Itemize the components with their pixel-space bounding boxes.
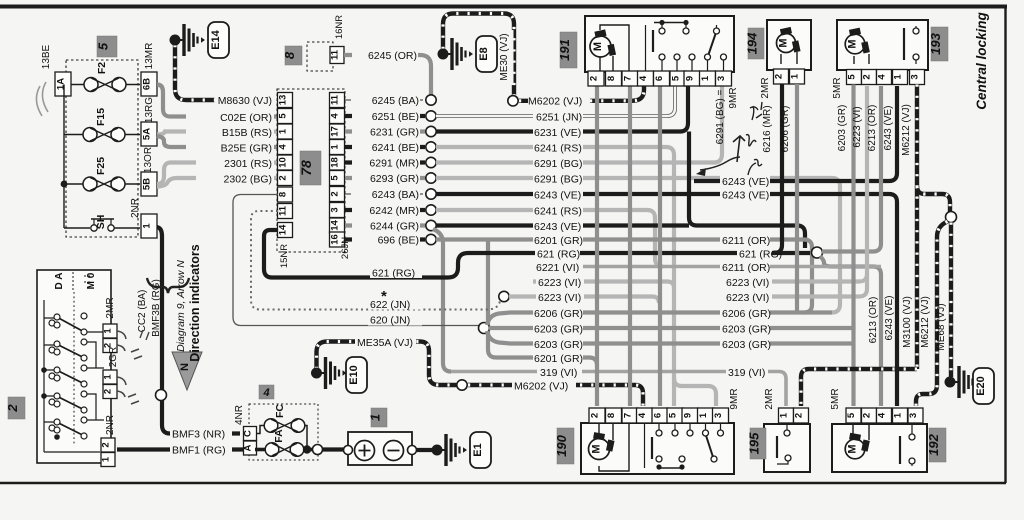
svg-text:319 (VI): 319 (VI) (540, 367, 577, 379)
pin 4 right of connector 78 (330, 109, 345, 124)
fusebox internal bus (63, 85, 65, 229)
svg-text:17: 17 (330, 126, 341, 137)
wire battery to E1 (416, 448, 434, 452)
pin 1 left of connector 78 (278, 124, 293, 139)
svg-text:16NR: 16NR (334, 15, 345, 39)
label 2301 (RS) (196, 156, 274, 169)
svg-text:6223 (VI): 6223 (VI) (538, 277, 581, 289)
pin 3 of 190 (713, 408, 729, 423)
svg-text:2: 2 (774, 74, 785, 79)
wire ME35A (VJ) from E10 (317, 342, 458, 386)
svg-text:5: 5 (278, 113, 289, 119)
component 193 box (837, 20, 928, 70)
wire M8630 (VJ) from E14 (175, 45, 272, 100)
page frame bottom border (0, 482, 1006, 485)
wire M6212 (VJ) from pin 3 of 193 (915, 85, 919, 370)
switch of 192 (899, 436, 901, 464)
pin 11 right of connector 78 (330, 93, 345, 108)
svg-text:11: 11 (330, 94, 341, 105)
pin 6 of 191 (654, 71, 670, 86)
wire stub arcs left of 1A (36, 82, 48, 116)
wire ME68 (VJ) junction to ground E20 (949, 223, 953, 378)
label C02E (OR) (186, 110, 274, 123)
pin 4 of 190 (637, 408, 653, 423)
svg-text:E10: E10 (348, 365, 360, 385)
wire BMF1 (RG) row (117, 447, 243, 451)
svg-text:6: 6 (654, 76, 665, 81)
svg-text:M 0: M 0 (86, 272, 97, 289)
svg-text:C02E (OR): C02E (OR) (220, 112, 272, 124)
svg-text:14: 14 (330, 220, 341, 231)
svg-text:1: 1 (790, 73, 801, 79)
svg-text:1: 1 (893, 74, 904, 80)
wire 2301 (RS) from 5B (157, 163, 278, 185)
svg-text:5: 5 (668, 412, 679, 418)
fuse FA (265, 443, 279, 457)
pin 13 left of connector 78 (278, 93, 293, 108)
pin 2 of 195 (794, 408, 809, 423)
connector node row 2 (426, 111, 436, 121)
svg-text:6251 (JN): 6251 (JN) (536, 112, 582, 124)
wire 6243 (VE) third row (436, 223, 689, 227)
svg-text:6223 (VI): 6223 (VI) (726, 292, 769, 304)
wire 319 (VI) row (451, 372, 786, 407)
svg-text:6211 (OR): 6211 (OR) (722, 235, 770, 247)
pin 5 of 191 (670, 71, 686, 86)
svg-text:6: 6 (653, 413, 664, 418)
svg-text:E20: E20 (975, 376, 987, 396)
svg-text:6203 (GR): 6203 (GR) (722, 324, 771, 336)
svg-text:6211 (OR): 6211 (OR) (722, 262, 770, 274)
wire battery to component 4 (322, 447, 345, 451)
svg-text:3: 3 (716, 76, 727, 81)
ground E8 (438, 49, 449, 60)
pin A of component 4 (244, 441, 257, 455)
svg-text:2GR: 2GR (108, 347, 119, 368)
svg-text:2: 2 (101, 442, 112, 447)
svg-text:2: 2 (330, 191, 341, 196)
svg-text:M8630 (VJ): M8630 (VJ) (218, 95, 272, 107)
fuse F15 (83, 128, 97, 142)
wire M6212 branch to junction (917, 186, 950, 212)
page frame top bar (0, 5, 1007, 9)
label 192 (929, 428, 946, 462)
svg-text:E14: E14 (210, 29, 222, 49)
svg-text:B15B (RS): B15B (RS) (222, 127, 272, 139)
svg-text:13BE: 13BE (41, 44, 52, 69)
svg-text:5: 5 (330, 175, 341, 181)
wire 6242 (MR) from connector 78 (345, 208, 425, 212)
label 195 (750, 428, 766, 459)
svg-text:6213 (OR): 6213 (OR) (867, 105, 878, 152)
svg-text:190: 190 (554, 434, 569, 456)
svg-text:E8: E8 (478, 47, 490, 60)
wire 6231 (VE) row (436, 86, 688, 132)
svg-text:2MR: 2MR (764, 388, 775, 409)
wire 6291 (BG) row to pin 3 of 191 (436, 86, 722, 163)
pin 5 right of connector 78 (330, 171, 345, 186)
svg-text:6221 (VI): 6221 (VI) (536, 262, 579, 274)
svg-text:6201 (GR): 6201 (GR) (534, 235, 583, 247)
svg-text:D A: D A (54, 273, 65, 290)
pin 6 of 190 (652, 408, 668, 423)
svg-text:BMF1 (RG): BMF1 (RG) (172, 445, 226, 457)
svg-text:15NR: 15NR (279, 244, 290, 268)
pin 2 left of connector 78 (278, 171, 293, 186)
connector node 6223 (499, 291, 509, 301)
label 194 (748, 28, 764, 59)
terminal node component 4 (313, 445, 323, 455)
svg-text:78: 78 (298, 160, 314, 176)
svg-text:7: 7 (623, 76, 634, 81)
component 190 box (581, 423, 734, 474)
svg-text:C: C (243, 430, 254, 437)
pin 18 right of connector 78 (330, 155, 345, 170)
label 5 (97, 36, 117, 57)
wire M6212 branch to pin 3 of 192 (916, 222, 948, 407)
svg-text:1: 1 (103, 328, 114, 334)
connector node row 6 (426, 173, 436, 183)
connector node row 9 (426, 220, 436, 230)
svg-text:6223 (VI): 6223 (VI) (538, 292, 581, 304)
connector node row 8 (426, 205, 436, 215)
svg-text:1: 1 (700, 75, 711, 81)
wire 6213 (OR) up to pin 4 of 193 (822, 86, 881, 252)
svg-text:M6202 (VJ): M6202 (VJ) (514, 381, 568, 393)
pin 1 of 194 (790, 69, 805, 84)
svg-text:5MR: 5MR (830, 388, 841, 409)
svg-text:6231 (VE): 6231 (VE) (534, 127, 581, 139)
svg-text:N: N (179, 363, 191, 371)
pin 1 right of connector 78 (330, 140, 345, 155)
svg-text:16: 16 (330, 234, 341, 245)
connector node row 3 (426, 126, 436, 136)
svg-text:2NR: 2NR (105, 415, 116, 435)
svg-text:3: 3 (330, 207, 341, 212)
pin 1 of 193 (893, 70, 908, 85)
svg-text:6243 (VE): 6243 (VE) (534, 190, 581, 202)
svg-text:6206 (GR): 6206 (GR) (722, 308, 771, 320)
label 4 (259, 385, 274, 399)
pin 9 of 190 (682, 408, 698, 423)
svg-text:6245 (BA): 6245 (BA) (372, 95, 419, 107)
wire 6201 (GR) row upper (436, 240, 812, 313)
pin 2 of 190 (589, 408, 605, 423)
switch contacts of component 2 (54, 314, 60, 320)
svg-text:1: 1 (101, 456, 112, 462)
svg-text:2: 2 (590, 413, 601, 418)
pin 5 of 190 (667, 408, 683, 423)
junction dot fusebox bus (61, 181, 68, 188)
svg-text:4: 4 (278, 144, 289, 150)
svg-text:1: 1 (330, 144, 341, 150)
svg-text:5: 5 (847, 74, 858, 80)
svg-text:6231 (GR): 6231 (GR) (370, 127, 419, 139)
wire 6231/6243 link vertical (689, 132, 697, 226)
svg-text:2MR: 2MR (760, 77, 771, 98)
wire break marks (131, 349, 142, 359)
wire 2NR from fusebox pin 1 (157, 227, 240, 434)
ground E1 (432, 445, 443, 456)
wire 6223 (VI) row one (533, 282, 674, 289)
component 8 dashed outline (307, 42, 333, 71)
pin 2 of 191 (588, 71, 604, 86)
svg-text:4: 4 (637, 412, 648, 418)
wire 6243 (VE) main row to pin 1 of 192 (436, 194, 897, 406)
pin 16 right of connector 78 (330, 232, 345, 247)
motor of 193 (854, 54, 869, 64)
svg-text:1: 1 (142, 223, 153, 229)
svg-text:6223 (VI): 6223 (VI) (726, 277, 769, 289)
svg-text:13MR: 13MR (144, 43, 155, 70)
wire 6216 (MR) from pin 2 of 194 to 621 row (774, 84, 782, 253)
wire 6206 (GR) row (487, 313, 832, 326)
svg-text:M6212 (VJ): M6212 (VJ) (920, 296, 931, 348)
svg-text:6201 (GR): 6201 (GR) (534, 353, 583, 365)
svg-text:2: 2 (794, 413, 805, 418)
wire 6243 third to junction 621 (697, 226, 805, 249)
label 193 (931, 27, 948, 61)
svg-text:13OR: 13OR (143, 147, 154, 173)
wire 621 (RG) from pin 14 of connector 78 (264, 230, 810, 278)
label B25E (GR) (186, 141, 274, 154)
svg-text:7: 7 (623, 413, 634, 418)
switch blade of 190 (706, 436, 713, 458)
svg-text:9MR: 9MR (729, 388, 740, 409)
pin 1 of 195 (779, 408, 794, 423)
svg-text:2: 2 (278, 175, 289, 180)
wire 620 (JN) from pin 8 (233, 195, 479, 326)
svg-text:5MR: 5MR (832, 77, 843, 98)
svg-text:2: 2 (862, 413, 873, 418)
pin 4 of 191 (638, 71, 654, 86)
svg-text:6213 (OR): 6213 (OR) (868, 297, 879, 344)
svg-text:6203 (GR): 6203 (GR) (837, 105, 848, 152)
pin 3 of 192 (908, 408, 923, 423)
junction node 621 (812, 247, 823, 258)
pin 9 of 191 (684, 71, 700, 86)
svg-text:Central locking: Central locking (974, 11, 989, 109)
connector node row 1 (426, 95, 436, 105)
svg-text:4: 4 (262, 387, 269, 399)
wire 622 (JN) dotted from pin 11 (251, 211, 500, 310)
motor of 191 (600, 25, 629, 71)
svg-text:4: 4 (877, 74, 888, 80)
wire B25E (GR) from 5A (157, 136, 278, 147)
wire 6203 (GR) row one (489, 326, 853, 330)
svg-text:6243 (BA): 6243 (BA) (372, 189, 419, 201)
svg-text:6203 (GR): 6203 (GR) (722, 339, 771, 351)
ground E20 (945, 377, 956, 388)
svg-text:4NR: 4NR (234, 405, 245, 425)
svg-text:BMF3 (NR): BMF3 (NR) (172, 429, 225, 441)
svg-text:B25E (GR): B25E (GR) (221, 143, 272, 155)
svg-text:11: 11 (330, 49, 341, 60)
svg-text:M3100 (VJ): M3100 (VJ) (902, 296, 913, 348)
connector node row 10 (426, 234, 436, 244)
svg-text:192: 192 (926, 433, 941, 455)
component 194 box (767, 20, 811, 70)
label 8 (285, 46, 302, 65)
svg-text:13RG: 13RG (144, 97, 155, 123)
pin 11 left of connector 78 (278, 204, 293, 219)
pin 4 of 192 (877, 408, 892, 423)
svg-text:5: 5 (846, 412, 857, 418)
svg-text:2302 (BG): 2302 (BG) (224, 174, 272, 186)
svg-text:2: 2 (5, 404, 20, 413)
pin 5 of 192 (846, 408, 861, 423)
pin 5A (141, 122, 157, 146)
label B15B (RS) (186, 125, 274, 138)
svg-text:6241 (RS): 6241 (RS) (534, 206, 582, 218)
ground E14 (170, 35, 181, 46)
svg-text:195: 195 (747, 432, 762, 454)
pin 2 mid of component 2 (103, 385, 117, 399)
label 2302 (BG) (196, 172, 274, 185)
label 1 (371, 408, 387, 427)
wire 6241 (BE) from connector 78 (345, 145, 425, 149)
wire pin 6 of 191 to pin 6 of 190 (658, 86, 662, 406)
left rail of component 2 (44, 300, 100, 452)
pin 2 of 194 (774, 69, 789, 84)
svg-text:ME68 (VJ): ME68 (VJ) (936, 303, 947, 350)
svg-text:6243 (VE): 6243 (VE) (722, 176, 769, 188)
label 2 (8, 397, 25, 419)
svg-text:6293 (GR): 6293 (GR) (370, 173, 419, 185)
svg-text:CC2 (BA): CC2 (BA) (137, 290, 148, 333)
svg-text:6243 (VE): 6243 (VE) (884, 295, 895, 340)
svg-text:6291 (BG) =: 6291 (BG) = (715, 89, 726, 144)
pin 2 of 192 (862, 408, 877, 423)
svg-text:M: M (592, 42, 604, 51)
switch contacts of 191 (654, 22, 686, 24)
svg-text:1: 1 (779, 412, 790, 418)
component 1 battery box (348, 432, 412, 465)
svg-text:4: 4 (638, 75, 649, 81)
wire 6201 branch down to 6201 lower row (488, 240, 496, 358)
component 195 box (764, 424, 810, 472)
wire 696 (BE) from connector 78 (345, 237, 425, 241)
pin 1A (55, 72, 71, 96)
svg-text:9: 9 (685, 76, 696, 81)
svg-text:2301 (RS): 2301 (RS) (224, 158, 272, 170)
wire 6203 (GR) row two (487, 331, 853, 344)
svg-text:M6202 (VJ): M6202 (VJ) (528, 96, 582, 108)
wire ME30 (VJ) from E8 (443, 14, 514, 96)
wire 6293 (GR) from connector 78 (345, 176, 425, 180)
battery plus terminal (355, 441, 375, 461)
pin C of component 4 (244, 427, 257, 441)
svg-text:1: 1 (698, 412, 709, 418)
pin 4 left of connector 78 (278, 140, 293, 155)
wire M6202 (VJ) row to pin 4 of 191 (519, 99, 560, 103)
svg-text:M: M (847, 39, 859, 48)
ground E10 (311, 368, 322, 379)
svg-text:A: A (243, 444, 254, 451)
pin 3 of 191 (716, 71, 732, 86)
svg-text:ME35A (VJ): ME35A (VJ) (357, 337, 413, 349)
svg-text:8: 8 (606, 413, 617, 418)
svg-text:*: * (381, 288, 387, 305)
svg-text:5B: 5B (142, 178, 153, 190)
wire 6251 (JN) row (436, 86, 675, 116)
svg-text:193: 193 (928, 32, 943, 54)
svg-text:622 (JN): 622 (JN) (370, 299, 410, 311)
pin 1 upper of component 2 (103, 324, 117, 338)
switch blade of 191 (709, 34, 716, 55)
component 4 internal wires (257, 426, 307, 450)
pin 5 left of connector 78 (278, 109, 293, 124)
wire 6291 (BG) row lower to 6206 row (436, 178, 840, 313)
label 78 (300, 151, 321, 185)
svg-text:9MR: 9MR (728, 87, 739, 108)
wire 6251 (BE) from connector 78 (345, 114, 425, 118)
svg-text:6223 (VI): 6223 (VI) (852, 106, 863, 147)
svg-text:M: M (591, 444, 603, 453)
svg-text:191: 191 (557, 39, 572, 61)
svg-text:6291 (BG): 6291 (BG) (534, 158, 582, 170)
pin 1 of 190 (698, 408, 714, 423)
svg-text:5A: 5A (142, 128, 153, 140)
pin 2 upper of component 2 (103, 339, 117, 353)
svg-text:1: 1 (893, 412, 904, 418)
label M8630 (VJ) (215, 94, 273, 107)
pin 8 of 190 (606, 408, 622, 423)
component 2 box (37, 270, 111, 463)
svg-text:3: 3 (713, 413, 724, 418)
page frame right border (1004, 8, 1006, 483)
pin 11 of component 8 (330, 47, 344, 64)
svg-text:4: 4 (877, 412, 888, 418)
pin 6B (141, 72, 157, 96)
label BMF3 (NR) (170, 427, 232, 440)
pin 1 mid of component 2 (103, 370, 117, 384)
wire 2302 (BG) from 5B (157, 178, 278, 187)
svg-text:6291 (BG): 6291 (BG) (534, 174, 582, 186)
svg-text:6243 (VE): 6243 (VE) (883, 105, 894, 150)
svg-text:6206 (GR): 6206 (GR) (534, 308, 583, 320)
pin 1 of 192 (893, 408, 908, 423)
svg-text:621 (RG): 621 (RG) (537, 249, 580, 261)
connector node row 4 (426, 142, 436, 152)
svg-text:5: 5 (96, 42, 111, 50)
svg-text:2MR: 2MR (105, 297, 116, 318)
svg-text:6243 (VE): 6243 (VE) (534, 221, 581, 233)
wire B15B (RS) from 5A (157, 132, 278, 135)
junction dot component 4 (303, 445, 311, 453)
svg-text:6206 (GR): 6206 (GR) (780, 106, 791, 153)
switch of 193 (903, 28, 905, 60)
svg-text:621 (RG): 621 (RG) (372, 268, 415, 280)
battery terminal nodes (344, 446, 353, 455)
svg-text:1: 1 (278, 128, 289, 134)
wire 6245 (BA) from connector 78 (345, 99, 425, 101)
wire 6221 (VI) row to 6213 vertical (581, 265, 881, 269)
svg-text:6241 (BE): 6241 (BE) (372, 142, 419, 154)
pin 3 right of connector 78 (330, 203, 345, 218)
svg-text:10: 10 (278, 157, 289, 168)
svg-text:620 (JN): 620 (JN) (370, 315, 410, 327)
svg-text:13: 13 (278, 95, 289, 106)
svg-text:1: 1 (103, 374, 114, 380)
junction node BMF3B (156, 390, 167, 401)
svg-text:8: 8 (282, 51, 297, 59)
pin 5 of 193 (847, 70, 862, 85)
svg-text:6245 (OR): 6245 (OR) (368, 50, 417, 62)
wire 6241 to pin5 and pin3 of 190 (674, 378, 716, 406)
divider dotted (73, 292, 75, 445)
pin 7 of 191 (622, 71, 638, 86)
